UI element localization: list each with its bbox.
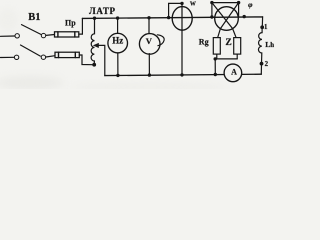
wire to fuse2	[46, 56, 55, 57]
wire fuse2 to transformer bottom	[79, 55, 92, 65]
phase meter diagonal to Z	[212, 3, 236, 38]
switch B1 pole2 left contact	[14, 55, 18, 59]
phase meter left stub	[211, 3, 213, 17]
switch B1 pole1 left contact	[15, 34, 19, 38]
svg-text:Lh: Lh	[265, 40, 274, 49]
frequency meter Hz	[108, 33, 128, 53]
svg-text:В1: В1	[28, 12, 40, 23]
node V top	[147, 16, 150, 19]
phase meter diagonal to Rg	[218, 3, 239, 38]
faint scan mottling	[0, 0, 279, 91]
svg-text:Rg: Rg	[199, 37, 209, 46]
svg-text:ЛАТР: ЛАТР	[89, 6, 116, 16]
svg-text:2: 2	[265, 61, 269, 68]
node: ЛАТР top on rail	[93, 17, 96, 20]
node V bottom	[148, 73, 151, 76]
Hz bottom lead	[117, 53, 119, 76]
wire to fuse1	[46, 34, 55, 37]
node phase top-left	[210, 1, 213, 4]
resistor Rg	[213, 38, 220, 55]
node Hz bottom	[116, 74, 119, 77]
bottom rail	[105, 74, 261, 75]
autotransformer ЛАТР winding	[91, 18, 94, 63]
node phase left on rail	[210, 15, 213, 18]
V bottom lead	[148, 54, 150, 76]
voltmeter V	[139, 34, 160, 55]
switch B1 pole2 blade	[21, 45, 41, 56]
node W frame on rail	[167, 16, 170, 19]
svg-text:W: W	[190, 1, 196, 7]
svg-text:A: A	[231, 68, 237, 77]
phase meter body	[215, 7, 239, 31]
Rg bottom lead	[216, 54, 218, 59]
switch B1 pole1 right contact	[41, 33, 45, 37]
svg-text:V: V	[146, 36, 153, 46]
node W bottom	[180, 73, 183, 76]
phase meter top segment	[212, 2, 239, 4]
svg-text:Z: Z	[225, 38, 231, 48]
node W frame corner	[180, 2, 183, 5]
ЛАТР wiper arrow	[94, 43, 99, 47]
phase meter right stub	[238, 3, 240, 17]
svg-text:Пр: Пр	[65, 19, 76, 28]
wattmeter W vertical lead to bottom rail	[181, 3, 183, 75]
inductor Lh	[258, 27, 262, 63]
switch B1 pole1 blade	[22, 25, 42, 35]
load Z	[234, 38, 241, 55]
node terminal 1	[260, 25, 264, 29]
top rail corner to Lh	[261, 17, 263, 27]
wiper wire to bottom rail	[98, 45, 105, 75]
fuse Пр (top)	[55, 32, 79, 37]
node rail right of phase meter	[243, 15, 246, 18]
ammeter A	[224, 64, 242, 82]
wattmeter W voltage tap frame	[169, 3, 182, 17]
wire row2 input	[1, 56, 15, 58]
node Hz top	[116, 16, 119, 19]
svg-text:Hz: Hz	[112, 35, 123, 45]
node phase top-right	[237, 1, 240, 4]
node drop on rail	[214, 73, 217, 76]
wire joining Rg/Z bottoms	[215, 58, 237, 60]
voltmeter V top lead	[148, 18, 150, 34]
node: ЛАТР bottom terminal	[92, 63, 96, 67]
node Rg/Z join	[214, 57, 217, 60]
wire terminal 2 to bottom rail	[260, 64, 262, 75]
svg-text:φ: φ	[248, 0, 253, 9]
frequency meter Hz top lead	[117, 18, 119, 33]
voltmeter rim overshoot (scan pen slip)	[157, 35, 164, 46]
node terminal 2	[260, 62, 264, 66]
svg-text:1: 1	[264, 23, 268, 31]
drop wire to bottom rail	[214, 59, 216, 75]
fuse Пр (bottom)	[55, 52, 79, 57]
top rail	[82, 17, 262, 19]
wattmeter W body	[172, 7, 192, 31]
wire row1 input	[1, 35, 15, 37]
wire fuse1 to top rail riser	[79, 18, 83, 34]
Z bottom lead	[236, 54, 238, 59]
switch B1 pole2 right contact	[41, 55, 45, 59]
